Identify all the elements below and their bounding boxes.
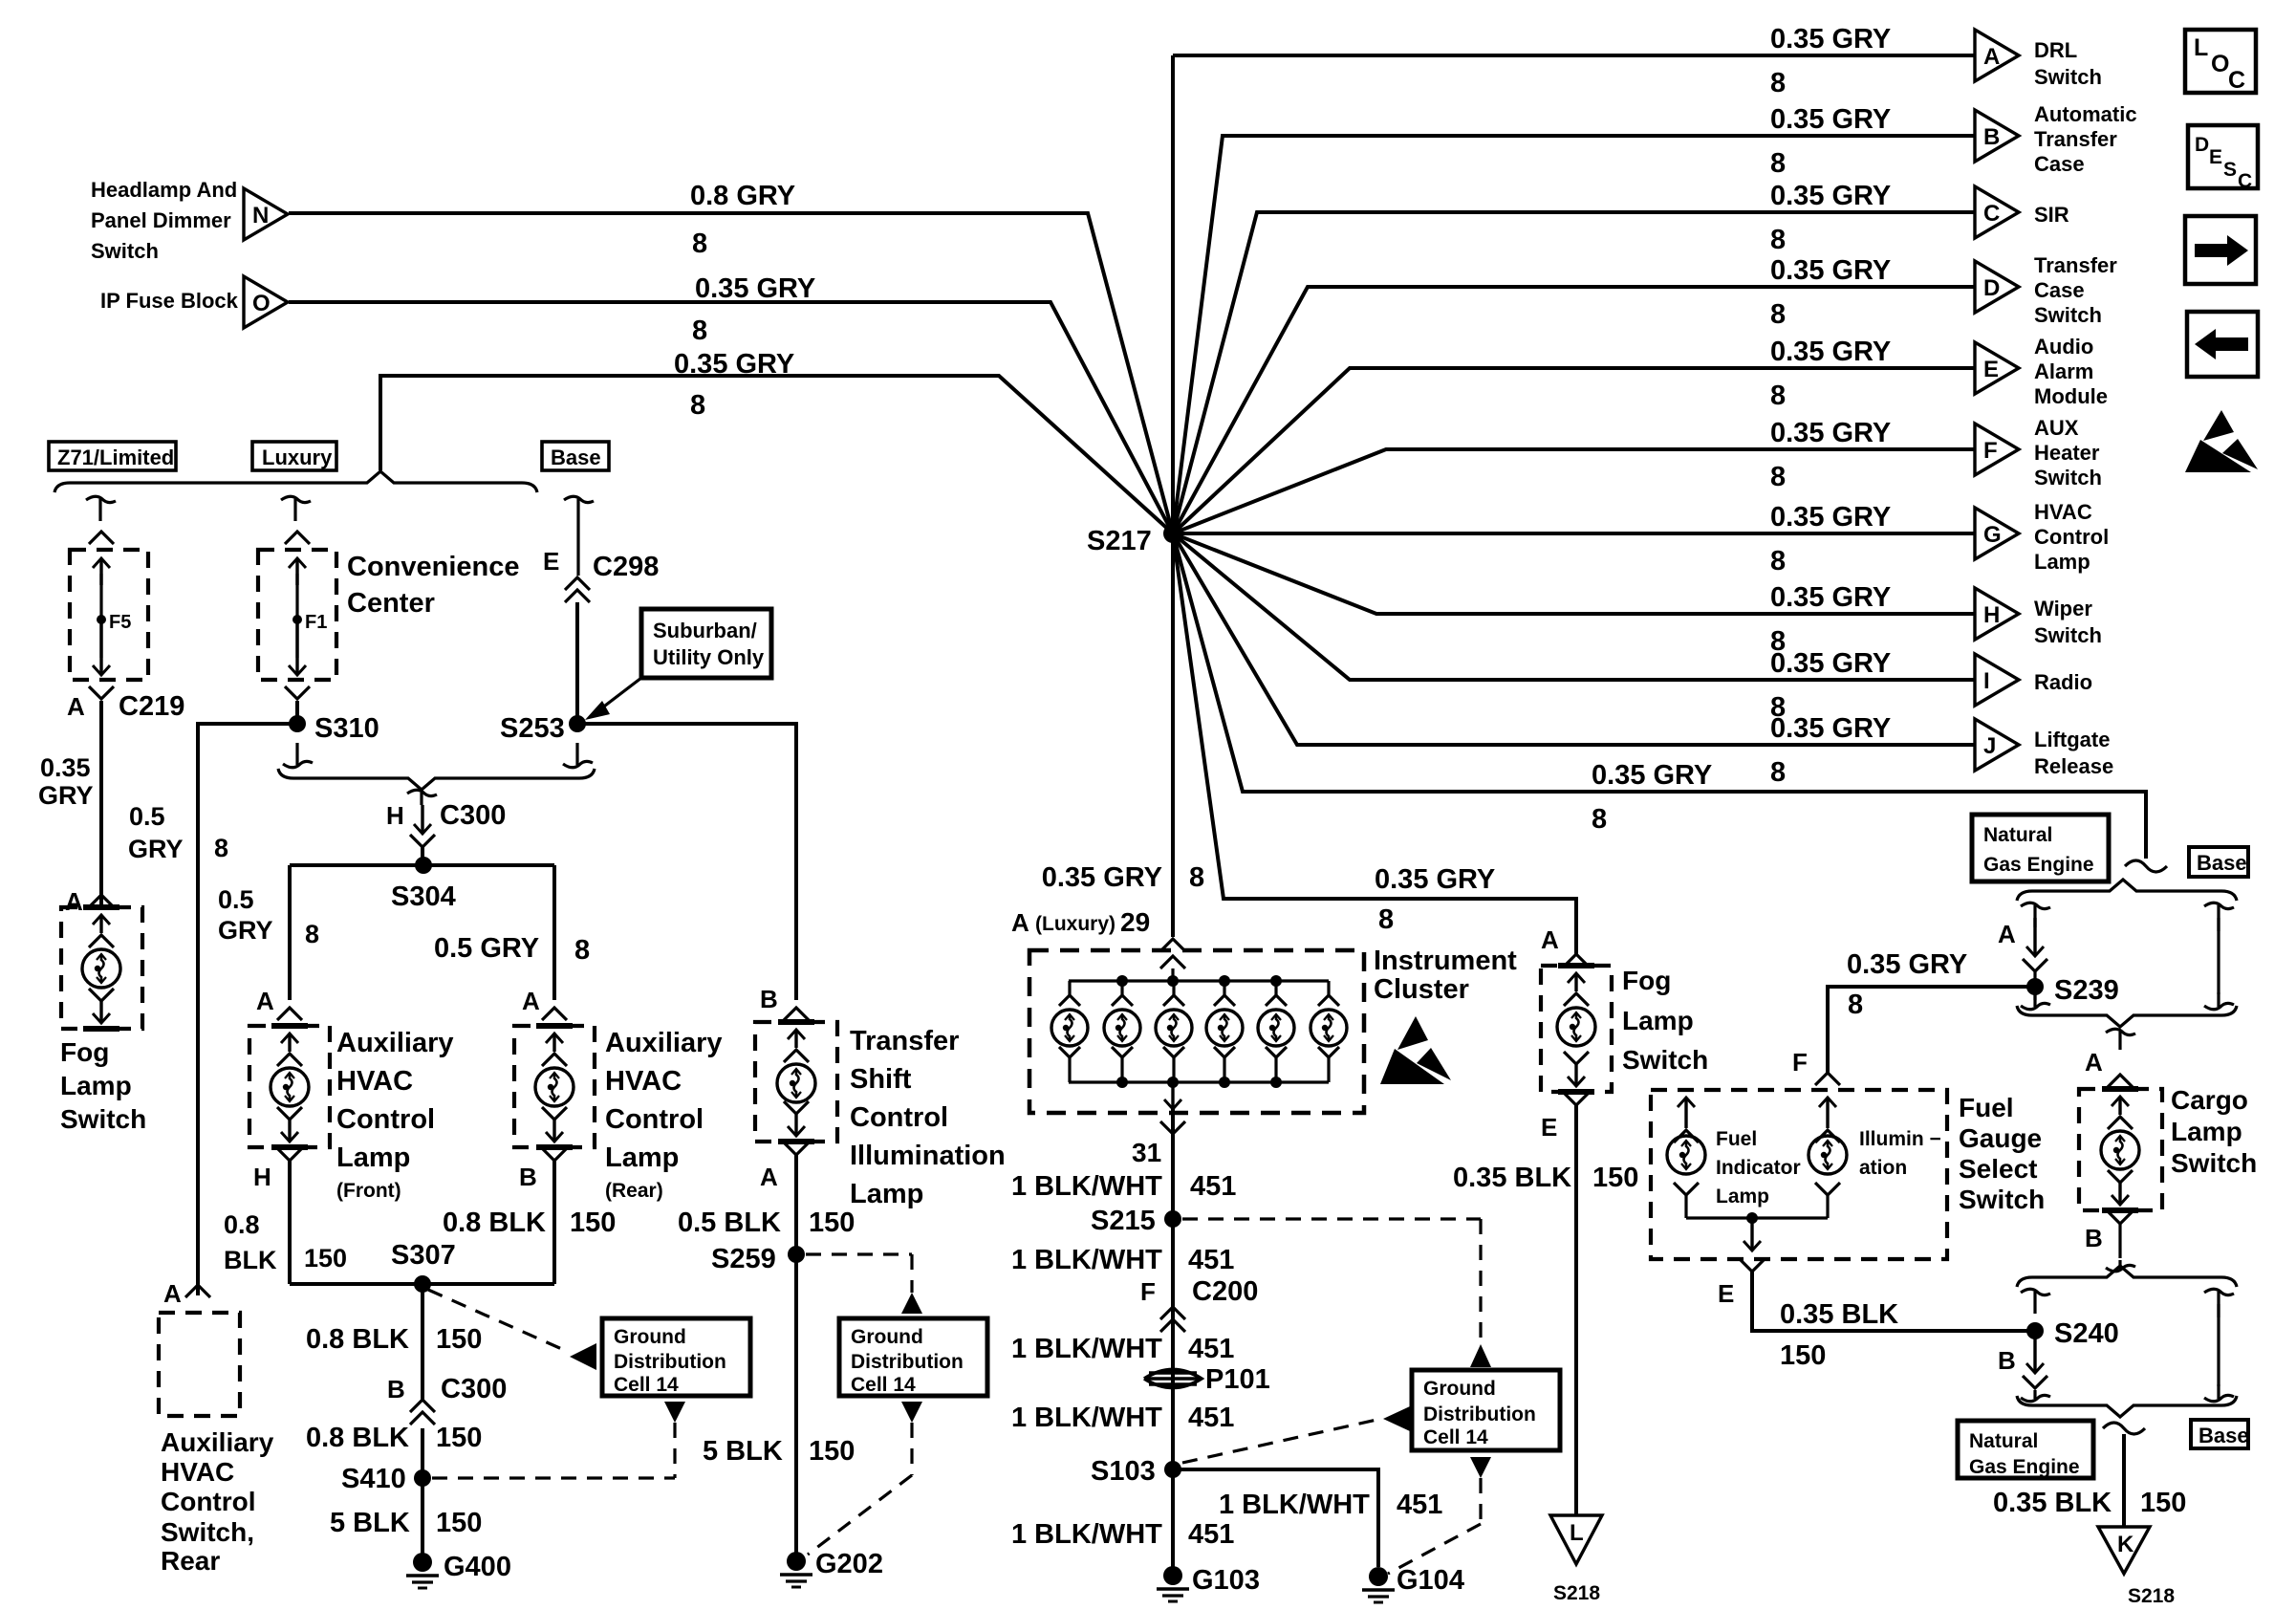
- svg-text:Transfer: Transfer: [2034, 127, 2117, 151]
- svg-text:G: G: [1983, 522, 2002, 548]
- right arm of S240 group: [2204, 1289, 2234, 1295]
- terminal chevron below fuse F5: [89, 686, 114, 699]
- svg-text:Gas Engine: Gas Engine: [1969, 1456, 2080, 1478]
- wire S103 to G103: [1171, 1469, 1175, 1576]
- wire transfer shift lamp to G202: [794, 1155, 798, 1561]
- connector A triangle: [1975, 30, 2019, 81]
- svg-text:Case: Case: [2034, 278, 2085, 302]
- svg-text:0.5 GRY: 0.5 GRY: [434, 933, 539, 964]
- svg-text:Suburban/: Suburban/: [653, 619, 757, 642]
- wire 0.35 GRY 8 from S217 to connector B: [1173, 136, 1975, 533]
- svg-text:F: F: [1792, 1048, 1808, 1077]
- svg-text:C219: C219: [119, 691, 184, 722]
- dashed reference wire S103 to ground distribution cell 14: [1182, 1419, 1381, 1463]
- svg-text:0.35 GRY: 0.35 GRY: [1847, 949, 1967, 980]
- terminal arrow and chevron C300 H: [421, 805, 423, 834]
- fog lamp switch dashed box (center): [1541, 966, 1612, 1092]
- svg-text:Cargo: Cargo: [2171, 1085, 2248, 1115]
- svg-text:150: 150: [1592, 1163, 1638, 1193]
- wire 0.35 GRY 8 from S217 to connector I: [1173, 533, 1975, 680]
- wire from F1 to splice S310: [295, 701, 299, 724]
- terminal chevron above transfer shift lamp: [784, 1008, 809, 1020]
- connector hook below S239 arm: [2021, 1003, 2050, 1009]
- svg-text:S215: S215: [1091, 1206, 1156, 1236]
- callout box Suburban/Utility Only: [641, 609, 771, 678]
- svg-text:150: 150: [809, 1207, 855, 1238]
- svg-text:451: 451: [1188, 1245, 1234, 1275]
- svg-text:Illumin −: Illumin −: [1859, 1128, 1941, 1150]
- svg-text:E: E: [543, 547, 559, 576]
- brace under S240 group: [2017, 1396, 2237, 1417]
- wire 0.35 GRY 8 from F to S239: [1828, 987, 2028, 1073]
- reference box Ground Distribution Cell 14 (S307): [602, 1318, 750, 1396]
- connector N (Headlamp And Panel Dimmer Switch): [244, 188, 288, 240]
- svg-text:Convenience: Convenience: [347, 552, 520, 582]
- fuse F1 element: [295, 558, 298, 585]
- svg-text:Utility Only: Utility Only: [653, 645, 765, 669]
- terminal chevron above cargo lamp switch: [2108, 1075, 2133, 1087]
- terminal chevron below transfer shift lamp: [784, 1142, 809, 1155]
- svg-text:Module: Module: [2034, 384, 2108, 408]
- connector D triangle: [1975, 261, 2019, 313]
- connector stub (Z71/Limited feed): [86, 496, 116, 502]
- svg-text:F1: F1: [305, 612, 327, 633]
- brace over convenience center feeds: [54, 471, 537, 492]
- wire fog lamp switch to S218 connector L: [1574, 1105, 1578, 1515]
- dashed reference arrow below ground distribution box to G202: [901, 1402, 922, 1423]
- connector hook below S240 arm: [2021, 1395, 2050, 1401]
- svg-text:0.35 GRY: 0.35 GRY: [1770, 418, 1891, 448]
- svg-text:Auxiliary: Auxiliary: [605, 1028, 723, 1058]
- svg-text:8: 8: [1848, 990, 1863, 1020]
- fuse F1 holder (convenience center) dashed box: [258, 550, 336, 680]
- svg-text:Control: Control: [161, 1487, 256, 1516]
- wire out of fuel gauge select switch (arrow down): [1750, 1218, 1753, 1251]
- instrument cluster illumination lamp 3: [1172, 981, 1175, 995]
- svg-text:0.5 BLK: 0.5 BLK: [678, 1207, 781, 1238]
- svg-text:H: H: [253, 1163, 271, 1191]
- ground G104: [1369, 1567, 1388, 1586]
- svg-text:8: 8: [1770, 381, 1786, 411]
- splice S240: [2026, 1322, 2044, 1339]
- wire 0.35 GRY 8 from S217 to connector G: [1173, 532, 1975, 535]
- illumination lamp (fuel gauge select switch): [1826, 1098, 1829, 1128]
- wire 0.35 GRY 8 from S217 to connector A: [1173, 54, 1975, 57]
- svg-text:8: 8: [690, 390, 705, 421]
- connector J triangle: [1975, 719, 2019, 771]
- svg-text:150: 150: [2140, 1488, 2186, 1518]
- brace under S239 group: [2017, 1006, 2237, 1027]
- svg-text:A: A: [760, 1163, 778, 1191]
- svg-text:S240: S240: [2054, 1318, 2119, 1349]
- svg-text:8: 8: [1770, 299, 1786, 330]
- pass-through connector P101: [1144, 1370, 1202, 1388]
- fuel gauge select switch internal bus: [1686, 1216, 1828, 1219]
- svg-text:8: 8: [305, 920, 319, 948]
- svg-text:8: 8: [1770, 68, 1786, 98]
- svg-text:8: 8: [1378, 904, 1394, 935]
- terminal chevron inside instrument cluster: [1160, 956, 1185, 968]
- svg-text:C300: C300: [440, 800, 506, 831]
- svg-text:0.35 GRY: 0.35 GRY: [1770, 24, 1891, 54]
- callout box Natural Gas Engine (bottom): [1958, 1421, 2093, 1478]
- connector E triangle: [1975, 342, 2019, 394]
- brace over S240 group: [2017, 1266, 2237, 1287]
- wire from S253 to transfer shift control illumination lamp: [577, 724, 796, 1000]
- svg-text:HVAC: HVAC: [605, 1066, 682, 1097]
- dashed reference wire S307 to ground distribution cell 14: [428, 1290, 564, 1350]
- wire 0.35 GRY 8 from S217 to natural gas engine group: [1173, 533, 2146, 859]
- svg-text:Natural: Natural: [1983, 824, 2052, 846]
- svg-text:S218: S218: [2128, 1585, 2175, 1607]
- svg-text:A: A: [67, 692, 85, 721]
- svg-text:Fuel: Fuel: [1716, 1128, 1757, 1150]
- svg-text:B: B: [760, 985, 778, 1013]
- svg-text:O: O: [252, 291, 271, 316]
- svg-text:Lamp: Lamp: [605, 1142, 679, 1173]
- terminal double chevron C200: [1160, 1307, 1185, 1319]
- svg-text:Lamp: Lamp: [2171, 1117, 2242, 1146]
- connector G triangle: [1975, 508, 2019, 559]
- wire rear lamp to S307: [552, 1161, 556, 1284]
- svg-text:Switch: Switch: [2171, 1148, 2257, 1178]
- svg-text:S217: S217: [1087, 526, 1152, 556]
- svg-text:ation: ation: [1859, 1157, 1907, 1179]
- svg-text:8: 8: [692, 228, 707, 259]
- svg-text:S103: S103: [1091, 1456, 1156, 1487]
- svg-text:A: A: [1011, 908, 1029, 937]
- wire bus S304 to both auxiliary HVAC control lamps (top): [290, 863, 554, 867]
- connector stub left arm S240: [2021, 1289, 2050, 1295]
- svg-text:Illumination: Illumination: [850, 1141, 1006, 1171]
- instrument cluster dashed box: [1029, 950, 1364, 1113]
- svg-text:0.35 GRY: 0.35 GRY: [1770, 582, 1891, 613]
- svg-text:Gas Engine: Gas Engine: [1983, 854, 2094, 876]
- svg-text:Liftgate: Liftgate: [2034, 728, 2110, 751]
- svg-text:150: 150: [809, 1436, 855, 1467]
- svg-text:S259: S259: [711, 1244, 776, 1274]
- svg-text:AUX: AUX: [2034, 416, 2079, 440]
- svg-text:P101: P101: [1205, 1364, 1270, 1395]
- splice S239: [2026, 978, 2044, 995]
- wire 0.35 GRY 8 from S217 to connector F: [1173, 449, 1975, 533]
- connector hook below cargo lamp switch: [2118, 1224, 2121, 1258]
- svg-text:B: B: [2085, 1224, 2103, 1252]
- splice S103: [1164, 1461, 1181, 1478]
- svg-text:Cell 14: Cell 14: [1423, 1426, 1488, 1448]
- svg-text:S: S: [2223, 159, 2237, 181]
- svg-text:150: 150: [436, 1508, 482, 1538]
- svg-text:Switch: Switch: [2034, 303, 2102, 327]
- wire left branch down to auxiliary HVAC control lamp front: [288, 865, 292, 1000]
- svg-text:Transfer: Transfer: [850, 1026, 959, 1056]
- svg-text:1 BLK/WHT: 1 BLK/WHT: [1011, 1245, 1162, 1275]
- svg-text:0.35 GRY: 0.35 GRY: [1770, 648, 1891, 679]
- connector I triangle: [1975, 654, 2019, 706]
- terminal chevron below rear lamp: [542, 1148, 567, 1161]
- svg-text:Control: Control: [336, 1104, 435, 1135]
- ESD sensitivity symbol (instrument cluster): [1397, 1016, 1428, 1050]
- svg-text:Shift: Shift: [850, 1064, 912, 1095]
- wire front lamp to S307: [288, 1161, 292, 1284]
- terminal chevron F: [1815, 1073, 1840, 1085]
- svg-text:J: J: [1983, 733, 1996, 759]
- svg-text:1 BLK/WHT: 1 BLK/WHT: [1219, 1490, 1370, 1520]
- wire 0.35 BLK 150 from E to S240: [1752, 1272, 2028, 1331]
- svg-text:BLK: BLK: [224, 1246, 277, 1274]
- svg-text:150: 150: [436, 1423, 482, 1453]
- svg-text:0.35 GRY: 0.35 GRY: [1770, 104, 1891, 135]
- svg-text:150: 150: [1780, 1340, 1826, 1371]
- svg-text:1 BLK/WHT: 1 BLK/WHT: [1011, 1519, 1162, 1550]
- svg-text:H: H: [1983, 602, 2000, 628]
- wire 0.35 GRY 8 from S217 to connector E: [1173, 368, 1975, 533]
- svg-text:F: F: [1983, 438, 1998, 464]
- reference box Ground Distribution Cell 14 (S103): [1412, 1370, 1560, 1450]
- connector hook below S310: [283, 761, 313, 767]
- instrument cluster illumination lamp 5: [1274, 981, 1277, 995]
- svg-text:Lamp: Lamp: [850, 1179, 923, 1209]
- connector F triangle: [1975, 424, 2019, 475]
- legend box arrow left: [2187, 312, 2258, 377]
- svg-text:IP Fuse Block: IP Fuse Block: [100, 289, 239, 313]
- svg-text:0.35 GRY: 0.35 GRY: [1770, 181, 1891, 211]
- terminal chevron above fog lamp switch: [89, 895, 114, 907]
- svg-text:C: C: [2228, 67, 2245, 94]
- svg-text:1 BLK/WHT: 1 BLK/WHT: [1011, 1403, 1162, 1433]
- instrument cluster illumination lamp 4: [1223, 981, 1225, 995]
- svg-text:Lamp: Lamp: [1716, 1186, 1769, 1207]
- wire 0.35 GRY 8 from S217 to fog lamp switch: [1173, 533, 1576, 954]
- option box Z71/Limited: [49, 442, 176, 470]
- cargo lamp switch dashed box: [2079, 1089, 2162, 1210]
- wire S103 to G104: [1173, 1469, 1378, 1567]
- option box Base: [542, 442, 609, 470]
- svg-text:0.8: 0.8: [224, 1210, 260, 1239]
- svg-text:0.35: 0.35: [40, 753, 91, 782]
- svg-text:G104: G104: [1397, 1565, 1464, 1596]
- svg-text:8: 8: [1770, 462, 1786, 492]
- svg-text:8: 8: [1770, 225, 1786, 255]
- svg-text:B: B: [1998, 1346, 2016, 1375]
- svg-text:C: C: [1983, 201, 2000, 227]
- svg-text:0.8 GRY: 0.8 GRY: [690, 181, 795, 211]
- svg-text:1 BLK/WHT: 1 BLK/WHT: [1011, 1171, 1162, 1202]
- svg-text:Natural: Natural: [1969, 1430, 2038, 1452]
- svg-text:(Luxury): (Luxury): [1035, 913, 1116, 935]
- fuse F5 element: [99, 558, 102, 585]
- svg-text:Fog: Fog: [60, 1037, 109, 1067]
- svg-text:0.35 BLK: 0.35 BLK: [1993, 1488, 2112, 1518]
- wire from S310 to auxiliary HVAC control switch rear: [198, 724, 297, 1295]
- connector stub left arm S239: [2021, 903, 2050, 908]
- svg-text:8: 8: [1770, 546, 1786, 577]
- svg-text:S218: S218: [1553, 1582, 1600, 1604]
- wire N 0.8 GRY 8 to S217: [289, 213, 1173, 533]
- svg-text:Rear: Rear: [161, 1546, 220, 1576]
- splice S259: [788, 1246, 805, 1263]
- svg-text:S307: S307: [391, 1240, 456, 1271]
- svg-text:Cluster: Cluster: [1374, 974, 1469, 1005]
- terminal chevron below cargo lamp switch: [2108, 1211, 2133, 1224]
- svg-text:0.5: 0.5: [129, 802, 165, 831]
- wire O 0.35 GRY 8 to S217: [289, 302, 1173, 533]
- svg-text:B: B: [387, 1375, 405, 1403]
- instrument cluster illumination lamp 2: [1120, 981, 1123, 995]
- svg-text:Select: Select: [1959, 1154, 2038, 1184]
- svg-text:K: K: [2117, 1532, 2134, 1557]
- auxiliary HVAC control lamp front dashed box with lamp: [249, 1026, 330, 1147]
- svg-text:Auxiliary: Auxiliary: [161, 1427, 274, 1457]
- svg-text:N: N: [252, 203, 269, 228]
- dashed reference wire S215 to ground distribution cell 14: [1182, 1217, 1481, 1220]
- splice S410: [414, 1469, 431, 1487]
- instrument cluster illumination lamp 6: [1327, 981, 1330, 995]
- connector stub to cargo lamp switch: [2106, 1029, 2135, 1034]
- svg-text:E: E: [1541, 1113, 1557, 1142]
- svg-text:Distribution: Distribution: [614, 1351, 726, 1373]
- terminal double chevron C298: [565, 577, 590, 590]
- terminal chevron above instrument cluster: [1160, 939, 1185, 951]
- svg-text:451: 451: [1190, 1171, 1236, 1202]
- svg-text:HVAC: HVAC: [2034, 500, 2092, 524]
- dashed reference wire S259 to ground distribution cell 14: [806, 1252, 912, 1255]
- svg-text:0.35 GRY: 0.35 GRY: [695, 273, 815, 304]
- svg-text:Cell 14: Cell 14: [851, 1374, 916, 1396]
- svg-text:I: I: [1983, 668, 1990, 694]
- svg-text:(Front): (Front): [336, 1180, 401, 1202]
- terminal chevron above rear lamp: [542, 1008, 567, 1020]
- svg-text:0.35 GRY: 0.35 GRY: [1770, 713, 1891, 744]
- wire 0.35 GRY from C219 to fog lamp switch: [99, 701, 103, 910]
- svg-text:A: A: [1541, 925, 1559, 954]
- svg-text:Base: Base: [551, 446, 601, 469]
- svg-text:29: 29: [1120, 907, 1150, 937]
- svg-text:L: L: [2194, 34, 2208, 61]
- svg-text:Control: Control: [850, 1102, 948, 1133]
- connector H triangle: [1975, 588, 2019, 640]
- svg-text:8: 8: [1770, 757, 1786, 788]
- splice S217: [1163, 524, 1182, 543]
- svg-text:0.35 GRY: 0.35 GRY: [1375, 864, 1495, 895]
- terminal chevron above fuse F5: [89, 532, 114, 544]
- connector stub (Luxury feed): [281, 496, 311, 502]
- svg-text:Panel Dimmer: Panel Dimmer: [91, 208, 231, 232]
- svg-text:Distribution: Distribution: [851, 1351, 964, 1373]
- instrument cluster illumination lamp 1: [1068, 981, 1071, 995]
- fuse F5 holder (convenience center) dashed box: [70, 550, 148, 680]
- option box Luxury: [252, 442, 336, 470]
- svg-text:A: A: [256, 987, 274, 1015]
- svg-text:Z71/Limited: Z71/Limited: [57, 446, 174, 469]
- svg-text:HVAC: HVAC: [336, 1066, 413, 1097]
- svg-text:Release: Release: [2034, 754, 2113, 778]
- svg-text:H: H: [386, 801, 404, 830]
- svg-text:Ground: Ground: [1423, 1378, 1496, 1400]
- wire out of instrument cluster (arrow down): [1171, 1082, 1174, 1109]
- connector L triangle (to S218): [1550, 1515, 1602, 1564]
- svg-text:Switch: Switch: [60, 1104, 146, 1134]
- svg-text:GRY: GRY: [38, 781, 94, 810]
- svg-text:Center: Center: [347, 588, 435, 619]
- splice S307: [414, 1275, 431, 1293]
- svg-text:0.5: 0.5: [218, 885, 254, 914]
- ESD sensitivity symbol (legend): [2203, 410, 2234, 441]
- svg-text:Cell 14: Cell 14: [614, 1374, 679, 1396]
- svg-text:Wiper: Wiper: [2034, 597, 2092, 620]
- svg-text:GRY: GRY: [128, 835, 184, 863]
- wire 0.35 GRY 8 from S217 to connector C: [1173, 212, 1975, 533]
- svg-text:Indicator: Indicator: [1716, 1157, 1801, 1179]
- svg-text:8: 8: [692, 315, 707, 346]
- wire 0.35 GRY 8 from convenience-center brace to S217: [380, 376, 1173, 533]
- svg-text:0.35 BLK: 0.35 BLK: [1780, 1299, 1898, 1330]
- wire down from S240 with arrow: [2033, 1331, 2036, 1373]
- svg-text:S253: S253: [500, 713, 565, 744]
- wire 0.35 GRY 8 from S217 to connector H: [1173, 533, 1975, 614]
- wire bus to splice S307 (bottom): [290, 1282, 554, 1286]
- svg-text:A: A: [1998, 920, 2016, 948]
- connector stub (Base feed): [564, 496, 594, 502]
- svg-text:L: L: [1570, 1520, 1584, 1546]
- svg-text:Instrument: Instrument: [1374, 946, 1517, 976]
- svg-text:D: D: [2195, 134, 2209, 156]
- svg-text:451: 451: [1188, 1334, 1234, 1364]
- dashed reference arrow below ground distribution box to S410: [664, 1402, 685, 1423]
- brace over S239 group: [2017, 880, 2237, 901]
- fog lamp switch dashed box (left) with lamp: [61, 907, 142, 1029]
- connector C triangle: [1975, 186, 2019, 238]
- svg-text:451: 451: [1188, 1403, 1234, 1433]
- svg-text:Case: Case: [2034, 152, 2085, 176]
- svg-text:O: O: [2211, 51, 2229, 77]
- wire from C298 to splice S253: [575, 602, 579, 724]
- svg-text:E: E: [1983, 357, 1999, 382]
- svg-text:Switch,: Switch,: [161, 1517, 254, 1547]
- svg-text:E: E: [2209, 146, 2222, 168]
- callout box Natural Gas Engine (top): [1972, 815, 2109, 881]
- wire 0.35 GRY 8 from S217 to connector D: [1173, 287, 1975, 533]
- auxiliary HVAC control lamp rear dashed box with lamp: [514, 1026, 595, 1147]
- svg-text:Ground: Ground: [851, 1326, 923, 1348]
- svg-text:0.35 GRY: 0.35 GRY: [674, 349, 794, 380]
- svg-text:G400: G400: [444, 1552, 511, 1582]
- option box Base (top right): [2189, 847, 2248, 877]
- svg-text:Alarm: Alarm: [2034, 359, 2093, 383]
- svg-text:Distribution: Distribution: [1423, 1403, 1536, 1425]
- option box Base (bottom right): [2191, 1420, 2248, 1448]
- svg-text:150: 150: [436, 1324, 482, 1355]
- svg-text:0.35 GRY: 0.35 GRY: [1770, 255, 1891, 286]
- svg-text:A: A: [163, 1279, 182, 1308]
- svg-text:0.35 GRY: 0.35 GRY: [1770, 337, 1891, 367]
- svg-text:S239: S239: [2054, 975, 2119, 1006]
- legend box LOC: [2185, 30, 2256, 93]
- svg-text:Switch: Switch: [1959, 1185, 2045, 1214]
- svg-text:Base: Base: [2199, 1424, 2249, 1447]
- svg-text:150: 150: [304, 1244, 347, 1273]
- svg-text:HVAC: HVAC: [161, 1457, 234, 1487]
- right arm of S239 group: [2204, 903, 2234, 908]
- wire C300 B to splice S410: [421, 1428, 424, 1562]
- svg-text:Headlamp And: Headlamp And: [91, 178, 237, 202]
- svg-text:A: A: [1983, 44, 2000, 70]
- terminal chevron below fuse F1: [285, 686, 310, 699]
- ground G202: [787, 1552, 806, 1571]
- svg-text:0.8 BLK: 0.8 BLK: [306, 1324, 409, 1355]
- dashed reference wire S410 to ground distribution: [432, 1476, 675, 1479]
- instrument cluster illumination bus (bottom): [1069, 1080, 1329, 1083]
